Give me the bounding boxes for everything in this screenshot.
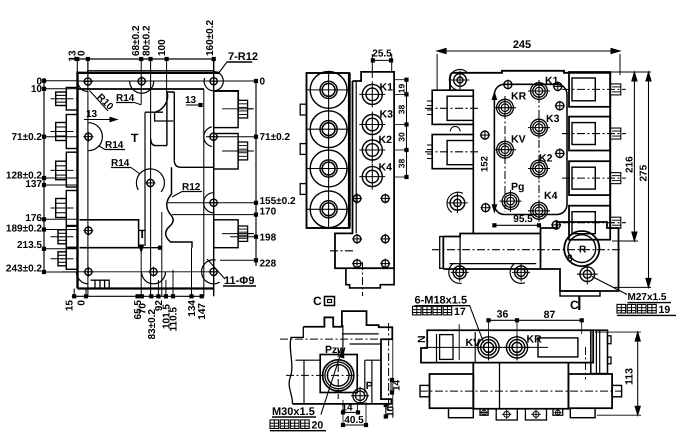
view3 bar left flange [440,237,444,269]
view4 right tab dash-dot vertical [388,323,390,412]
view1 fillet arc top-center [155,92,168,112]
svg-text:40.5: 40.5 [344,415,364,426]
svg-text:71±0.2: 71±0.2 [260,132,291,143]
label thread depth 19 [617,304,626,313]
view3 KR port [494,97,516,119]
svg-text:189±0.2: 189±0.2 [6,224,43,235]
svg-text:100: 100 [157,39,168,56]
view1 hole row line y=81 [78,80,259,82]
view3 small hole a [503,80,513,90]
view 4: section C-C detail [270,294,403,432]
view5 right solenoid [568,374,612,408]
view5 bottom foot 4 [553,409,563,416]
view2 right dim tick [405,78,408,81]
view5 dash-dot centerline [420,390,622,392]
view1 left port B [56,123,67,141]
view5 bottom foot 2 wide [496,409,517,420]
left dim 137 [44,184,78,186]
view1 top edge thin upper line [87,70,213,72]
view5 right bracket [591,330,608,373]
svg-text:170: 170 [260,207,277,218]
hole P9 center [145,178,155,188]
view1 right dim 155±0.2 [168,202,258,204]
view3 R block outline [541,222,619,291]
view2 plate inner vertical [355,81,357,233]
view4 outline [293,311,393,404]
view5 bar small rect detail [440,335,453,360]
right dimension baseline view1 [255,81,257,266]
view1 vertical x=141.2 upper [140,59,142,105]
view1 lower-left pocket rectangle [80,220,139,248]
view3 bar dash-dot centerline [432,249,622,251]
svg-text:K1: K1 [380,82,394,94]
bottom dim 110.5 [171,295,174,298]
R14 arc right of left row2 hole [88,123,102,151]
view1 left port F [58,252,66,266]
label thread depth 20 [270,420,279,429]
svg-text:95.5: 95.5 [513,214,533,225]
hole P9 left row3 [83,226,93,236]
view2 bottom dash-dot vertical [362,262,364,296]
view1 R12 wavy contour [166,167,192,247]
view1 right dim 0 [220,80,258,82]
view1 T-port arrow lower [139,245,144,252]
svg-text:8: 8 [567,254,573,265]
bottom dim 134 [190,295,193,298]
svg-text:K2: K2 [539,153,553,165]
view3 bottom bar [443,234,540,270]
view5 center body inner vertical [499,363,501,409]
spool circle at y=168.5 [310,150,347,187]
svg-text:19: 19 [397,84,407,94]
spool circle at y=89.9 [310,72,347,109]
top dim tick [140,57,143,60]
view1 tab contour top-center [167,92,174,160]
svg-text:10: 10 [31,84,43,95]
view3 M27 hole [577,264,598,285]
svg-text:20: 20 [312,420,324,432]
bottom dim 15 [73,295,76,298]
view1 right port 1 [214,91,238,127]
label thread depth 17 [413,306,422,315]
svg-text:K4: K4 [379,162,393,174]
view1 outline bottom edge [78,287,214,289]
R14 arc under top col2 hole [130,81,154,93]
view2 spool block right thick face [348,73,351,228]
view2 right dim tick [405,148,408,151]
hole P9 right bottom [209,267,219,277]
view5 inner rect [538,338,578,357]
view 5: bottom view [413,295,642,421]
svg-text:113: 113 [624,368,636,385]
left dim 10 [44,88,78,90]
left dim 189±0.2 [44,229,78,231]
svg-text:243±0.2: 243±0.2 [6,264,43,275]
view1 lower middle verticals [161,212,163,296]
view1 bottom comb detail [91,280,110,288]
view 2: front elevation with spools [300,49,408,297]
view1 bottom hole row line y=271.8 [62,271,216,273]
svg-text:6-M18x1.5: 6-M18x1.5 [415,295,468,307]
view1 right dim 170 [172,214,258,216]
R10 corner arc around top-left hole [78,82,88,92]
view3 bar cap vertical [459,234,461,270]
view2 left tab 1 [300,104,306,115]
view1 vertical x=141.2 lower [140,245,142,296]
svg-text:13: 13 [185,95,197,106]
view4 Pzw thread circles [323,360,354,391]
top dim extension verticals [76,59,78,72]
view3 small hole e [481,203,491,213]
view3 inner mounting face rounded rect [494,84,567,214]
dim 216 [633,72,635,241]
view2 lower dash-dot centerline [330,250,353,252]
spool circle at y=209.3 [310,191,347,228]
view1 right dim 71±0.2 [206,136,258,138]
bottom dim extension left [73,289,75,297]
view1 left port A [56,92,67,106]
view3 small hole near K1 [553,81,563,91]
view3 fillet arc at corner hole [449,69,466,90]
view1 long vertical x=203.8 [203,89,205,296]
view1 left port C [56,161,67,180]
view3 fillet arc bottom-left hole [447,192,463,212]
view1 left port E [58,230,66,244]
view1 slot verticals [144,112,146,246]
left dim 243±0.2 [44,271,78,273]
view5 KV circle [476,334,502,360]
view2 bolt hole c [352,234,362,244]
leader 11-O9 [207,259,225,279]
hole P9 right row2 [209,132,219,142]
bottom dim 92 [157,295,160,298]
view3 hole bar mid [512,263,530,281]
svg-text:17: 17 [454,306,466,318]
view1 inner line at y=89 [78,88,204,90]
hole P9 left bottom [83,267,93,277]
svg-text:137: 137 [25,179,42,190]
left dimension baseline [43,78,45,272]
svg-text:C: C [313,294,322,308]
view1 right dim 228 [220,259,258,261]
view5 center body [473,363,568,409]
top dim tick [212,57,215,60]
view1 left hole column vertical x=87.9 [87,59,89,296]
left dim 213.5 [44,248,78,250]
view3 KR-KV-Pg dash-dot [504,96,506,212]
R12 arc around right bottom hole [202,260,220,284]
left dim 0 [44,80,78,82]
dim 25.5 view2 [372,59,391,61]
hole P9 top col2 [137,76,147,86]
view1 right port 2 [214,134,238,170]
hole P9 right row3 [209,198,219,208]
view1 right port 3 [214,220,238,248]
svg-text:275: 275 [639,164,650,181]
view3 right port block 2 [569,117,610,151]
svg-text:N: N [416,335,428,343]
view2 right plate outline [335,72,394,268]
svg-text:KV: KV [466,337,481,349]
svg-text:KR: KR [527,334,543,346]
dim 113 [637,332,639,415]
svg-text:38: 38 [397,105,407,115]
view3 left block 2 [432,135,473,169]
svg-text:36: 36 [497,309,509,321]
view2 left tab 2 [300,144,306,155]
svg-text:M27x1.5: M27x1.5 [628,292,667,303]
view3 small hole c [480,130,490,140]
bottom dim 0 [84,295,87,298]
hole P9 top col3 [209,76,219,86]
svg-text:216: 216 [625,156,636,173]
leader M27 [592,277,627,295]
view2 bolt hole d [380,234,390,244]
svg-text:0: 0 [77,50,88,56]
svg-text:30: 30 [397,132,407,142]
view1 right dim 198 [230,236,258,238]
svg-text:15: 15 [65,300,76,312]
hole P9 left row2 [83,132,93,142]
dim 36-87 line [489,319,582,321]
R12 arc around right row2 hole [204,127,212,147]
svg-text:11-Φ9: 11-Φ9 [224,275,254,287]
view3 Pg port [500,190,522,212]
view2 bolt hole e [352,259,362,269]
view3 small hole b [555,101,565,111]
svg-text:176: 176 [25,213,42,224]
svg-text:M30x1.5: M30x1.5 [272,406,315,418]
view2 right dim tick [405,93,408,96]
bottom dim 147 [200,295,203,298]
svg-text:0: 0 [260,77,266,88]
view5 bracket dash-dot [585,347,587,380]
view4 Pzw boss square [320,355,357,393]
R12 arc under mid bottom hole [142,272,166,284]
top dimension baseline [71,58,214,60]
svg-text:25.5: 25.5 [372,49,392,60]
view2 right dim tick [405,123,408,126]
svg-text:71±0.2: 71±0.2 [11,132,42,143]
view3 right port block 3 [569,161,610,195]
view1 slot top line [145,111,163,113]
svg-text:K1: K1 [545,75,559,87]
view4 P hole [351,387,369,405]
svg-text:83±0.2: 83±0.2 [147,309,158,340]
bottom dimension baseline [72,295,204,297]
left dim 176 [44,218,78,220]
view3 R big circle [564,231,599,266]
view5 bottom foot 3 wide [525,409,546,420]
view5 bottom foot 1 [480,409,488,416]
svg-text:228: 228 [260,259,277,270]
svg-text:T: T [131,131,139,145]
svg-text:38: 38 [397,159,407,169]
view4 inner vertical a [342,325,344,354]
view1 vertical x=166.6 upper [166,59,168,92]
view2 right dim tick [405,175,408,178]
svg-text:K2: K2 [379,134,393,146]
view3 K1 port [528,80,550,102]
view1 step line y=121 [155,112,174,121]
bottom dim 83±0.2 [150,295,153,298]
view3 right port block 1 [569,72,610,107]
svg-text:R: R [579,245,587,256]
R12 arc around top col3 hole [204,72,223,91]
view5 top bar outline [421,330,593,362]
view 1: left side elevation of valve block [6,19,296,339]
view3 main outline [450,71,610,228]
R12 arc around right row3 hole [204,193,214,213]
svg-text:19: 19 [659,304,671,316]
svg-text:87: 87 [544,309,556,321]
leader Pzw-M30 diagonal [321,350,342,415]
view4 horizontal dash-dot centerline [280,338,392,340]
svg-text:110.5: 110.5 [169,307,180,332]
view1 left port D [56,199,67,218]
view3 notch between left blocks [450,127,460,132]
view1 long vertical x=150.6 [150,59,152,296]
top dim tick [149,57,152,60]
view4 inner step left [296,360,321,404]
top dim tick [86,57,89,60]
svg-text:198: 198 [260,233,277,244]
view1 step contour middle [151,139,167,146]
top dim tick [76,57,79,60]
view5 KR circle [504,334,530,360]
bottom dim 70 [140,295,143,298]
view5 left solenoid [430,374,474,408]
view3 K3 port [528,117,550,139]
view3 corner hole bottom-left [447,193,468,214]
K3 port circle view2 [359,112,385,138]
view 3: top plan view [425,39,676,316]
view3 bar inner line [450,263,537,265]
svg-text:KV: KV [511,134,526,146]
R12 arc around left bottom hole [76,272,88,284]
svg-text:155±0.2: 155±0.2 [260,196,297,207]
view1 outline left edge [76,72,78,289]
view1 outline top edge [78,72,220,74]
view3 K column dash-dot [538,80,540,218]
svg-text:147: 147 [197,303,208,320]
bottom dim 101.5 [164,295,167,298]
view1 top-right step [215,91,238,101]
svg-text:K3: K3 [546,113,560,125]
spool circle at y=129.2 [310,111,347,148]
hole P9 top-left (0,0) [83,77,93,87]
view1 right edge line (hole column 3) [213,59,215,296]
view1 lower contour around bottom-mid hole [139,247,162,249]
svg-text:K4: K4 [544,190,558,202]
svg-text:K3: K3 [380,109,394,121]
dim 275 [648,72,650,287]
svg-text:213.5: 213.5 [17,240,42,251]
view3 hole bar left [451,263,469,281]
view2 left tab 3 [300,184,306,195]
svg-text:P: P [366,380,373,392]
svg-text:0: 0 [77,300,88,306]
svg-text:68±0.2: 68±0.2 [131,25,142,56]
view2 spool centerline vertical [328,71,330,229]
K2 port circle view2 [359,137,385,163]
view5 bar inner lines left [436,334,438,363]
view2 bolt hole b [380,194,390,204]
svg-text:245: 245 [513,39,531,51]
view2 bottom slab and tab [346,268,394,288]
view1 fillet into lower ledge [174,160,213,167]
top dim tick [165,57,168,60]
view4 circle centerline vertical [337,349,339,399]
bottom dim 65.5 [136,295,139,298]
svg-text:T: T [139,227,147,241]
svg-text:152: 152 [480,156,491,172]
svg-text:80±0.2: 80±0.2 [142,25,153,56]
view3 small hole d [555,148,565,158]
view2 bolt hole f [380,259,390,269]
view3 corner hole top-left [451,71,470,90]
view5 bar centerline solid [424,346,548,348]
K4 port circle view2 [359,164,385,190]
svg-text:C: C [570,298,579,312]
view3 KV port [494,139,516,161]
svg-text:Pg: Pg [511,181,524,193]
svg-text:7-R12: 7-R12 [228,51,258,63]
view2 left spool block outline [307,73,350,228]
svg-text:KR: KR [511,91,527,103]
view2 bolt hole a [352,194,362,204]
view4 slab bottom line [342,333,379,335]
left dim 128±0.2 [44,177,78,179]
dim 245 [437,50,620,52]
view5 extension vertical x=459.2 [458,324,460,360]
left dim 71±0.2 [44,136,78,138]
leader 6-M18 [470,306,484,343]
view3 left block 1 [432,90,473,124]
view3 K2 port [528,158,550,180]
view3 small hole f [551,220,561,230]
view4 circle centerline horizontal [286,374,361,376]
K1 port circle view2 [359,81,385,107]
view3 bottom tab [560,291,600,296]
view3 K4 port [528,200,550,222]
view3 left edge lower [472,124,474,134]
view2 right dim chain line [406,80,408,177]
view4 left break line [289,327,303,404]
svg-text:13: 13 [86,109,98,120]
view3 right port block 4 [569,206,610,240]
view4 inner step right [350,344,381,404]
R14 arc around center hole [136,169,164,192]
svg-text:160±0.2: 160±0.2 [205,19,216,56]
hole P9 mid bottom [149,267,159,277]
